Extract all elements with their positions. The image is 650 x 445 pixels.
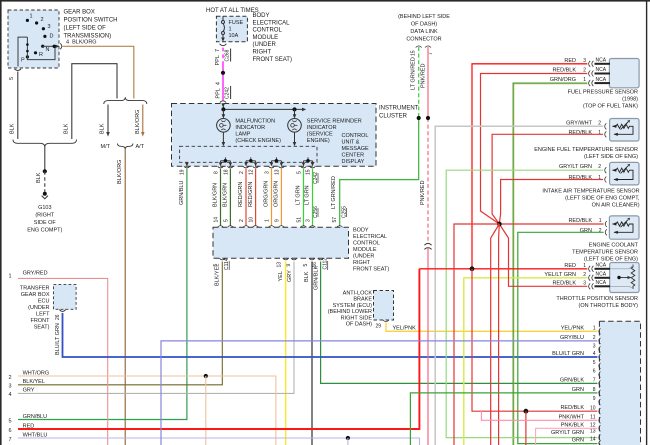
svg-text:RIGHT SIDE: RIGHT SIDE [341, 315, 373, 321]
svg-text:29: 29 [376, 324, 382, 330]
wire BLK/ORG from pin 4 [63, 46, 134, 98]
svg-text:CENTER: CENTER [342, 153, 365, 159]
DLC pin cups [416, 46, 422, 48]
svg-text:2: 2 [593, 335, 596, 341]
NCA stub TPS pin2 [595, 277, 611, 279]
TPS pin cups [589, 266, 594, 290]
svg-text:14: 14 [214, 217, 220, 223]
svg-text:WHT/BLU: WHT/BLU [23, 432, 48, 438]
svg-text:GRN/BLK: GRN/BLK [560, 377, 584, 383]
svg-text:1: 1 [593, 326, 596, 332]
svg-text:RIGHT: RIGHT [253, 50, 272, 56]
svg-text:ELECTRICAL: ELECTRICAL [253, 20, 291, 26]
svg-text:CONTROL: CONTROL [342, 133, 369, 139]
svg-text:BLU/LT GRN: BLU/LT GRN [552, 351, 584, 357]
wire GRY from BECM pin9 [18, 262, 294, 394]
svg-text:BLK/YEL: BLK/YEL [215, 264, 221, 286]
svg-text:2: 2 [239, 171, 245, 174]
ECM box [599, 321, 640, 445]
svg-text:GRN/BLK: GRN/BLK [313, 266, 319, 290]
wire RED/BLK branch below ECM row [525, 411, 527, 445]
svg-text:OF DASH): OF DASH) [346, 322, 372, 328]
svg-text:(BEHIND LEFT SIDE: (BEHIND LEFT SIDE [398, 14, 450, 20]
svg-text:2: 2 [598, 164, 601, 170]
fuse box [216, 16, 247, 42]
svg-text:PPL 7: PPL 7 [215, 49, 221, 66]
svg-text:A/T: A/T [136, 144, 145, 150]
intake air temperature sensor box [610, 162, 639, 185]
label SERVICE REMINDER INDICATOR [307, 119, 362, 145]
svg-text:1: 1 [599, 218, 602, 224]
page border right [646, 0, 647, 445]
wire BLK/ORG long vertical [124, 149, 126, 445]
transfer gear box ECU box [54, 285, 77, 310]
svg-text:BRAKE: BRAKE [353, 297, 372, 303]
lamp malfunction indicator (check engine) [217, 119, 231, 133]
coolant pin cups [605, 221, 607, 235]
svg-text:2: 2 [583, 68, 586, 74]
ground label G103 [27, 205, 62, 234]
wire RED/BLK intake [499, 180, 603, 225]
svg-text:RED/GRN: RED/GRN [238, 182, 244, 207]
svg-text:GEAR BOX: GEAR BOX [64, 10, 95, 16]
svg-text:GRY: GRY [287, 270, 293, 282]
engine fuel temp pin cups [605, 123, 607, 137]
svg-text:GRN/BLU: GRN/BLU [23, 414, 47, 420]
merge brace for BLK wires [13, 140, 77, 148]
wire YEL/PNK from ABS to ECM pin1 [386, 323, 597, 332]
svg-text:CONNECTOR: CONNECTOR [406, 37, 441, 43]
data link connector text [398, 14, 450, 43]
svg-text:15: 15 [411, 50, 417, 56]
svg-text:13: 13 [277, 262, 283, 268]
svg-text:RED: RED [564, 58, 576, 64]
wire PNK/RED solid down [427, 248, 429, 445]
svg-text:15: 15 [306, 169, 312, 175]
svg-text:GRY/WHT: GRY/WHT [566, 120, 593, 126]
svg-text:HOT AT ALL TIMES: HOT AT ALL TIMES [206, 8, 259, 14]
svg-text:FRONT: FRONT [31, 318, 51, 324]
svg-text:BLK: BLK [100, 123, 106, 134]
svg-text:SYSTEM (ECU): SYSTEM (ECU) [333, 303, 373, 309]
svg-text:3: 3 [583, 280, 586, 286]
intake air temp thermistor symbol [613, 166, 634, 180]
svg-text:18: 18 [223, 169, 229, 175]
svg-text:10A: 10A [229, 33, 239, 39]
intake air temp pin cups [605, 167, 607, 182]
svg-text:1: 1 [265, 219, 271, 222]
svg-text:INTAKE AIR TEMPERATURE SENSOR: INTAKE AIR TEMPERATURE SENSOR [542, 189, 639, 195]
intake air temp pin numbers [598, 164, 601, 181]
wire WHT/BLU branch down [347, 438, 349, 445]
svg-text:(LEFT SIDE OF ENG COMPT,: (LEFT SIDE OF ENG COMPT, [565, 196, 640, 202]
BECM top pin cups [218, 226, 343, 228]
svg-text:INSTRUMENT: INSTRUMENT [379, 106, 419, 112]
svg-text:BLK/GRN: BLK/GRN [223, 183, 229, 207]
wire RED/BLK engine fuel temp [492, 134, 603, 224]
svg-text:RED/BLK: RED/BLK [568, 175, 592, 181]
svg-text:(BEHIND LOWER: (BEHIND LOWER [328, 309, 372, 315]
svg-text:GRN: GRN [572, 387, 584, 393]
wire RED/BLK junction left branch [454, 224, 499, 445]
selector upper brace [104, 97, 147, 104]
svg-text:3: 3 [583, 58, 586, 64]
fuel pressure sensor box [609, 59, 639, 88]
svg-text:(TOP OF FUEL TANK): (TOP OF FUEL TANK) [583, 104, 638, 110]
coolant sensor text [572, 243, 639, 263]
svg-text:5: 5 [9, 77, 15, 80]
svg-text:MODULE: MODULE [353, 247, 377, 253]
page border left [0, 0, 2, 445]
svg-text:5: 5 [593, 360, 596, 366]
label INSTRUMENT CLUSTER [379, 106, 419, 120]
svg-text:ECU: ECU [38, 299, 50, 305]
svg-text:ENGINE COOLANT: ENGINE COOLANT [589, 243, 639, 249]
transfer gear box ECU text [20, 286, 50, 331]
cluster pins 3/13 split [272, 157, 282, 164]
selector lower mini brace [118, 144, 133, 150]
wire GRN ECM pin8 [410, 393, 597, 445]
cluster pin numbers row [180, 169, 312, 175]
svg-text:BLK: BLK [304, 271, 310, 282]
intake air temp sensor text [542, 189, 640, 209]
svg-text:CONTROL: CONTROL [253, 28, 283, 34]
svg-text:M/T: M/T [101, 144, 111, 150]
junction dot lamp2 feed [293, 107, 297, 111]
splice dot PPL [221, 71, 225, 75]
wire BLK/ORG A/T leg [142, 105, 144, 134]
svg-text:8: 8 [214, 171, 220, 174]
svg-text:ENGINE FUEL TEMPERATURE SENSOR: ENGINE FUEL TEMPERATURE SENSOR [534, 147, 638, 153]
svg-text:PNK/RED: PNK/RED [420, 181, 426, 205]
svg-text:G103: G103 [38, 205, 51, 211]
svg-text:YEL/PNK: YEL/PNK [561, 325, 585, 331]
svg-text:ENGINE): ENGINE) [307, 138, 330, 144]
ABS pin 29 cup [383, 320, 389, 322]
svg-text:(UNDER: (UNDER [28, 305, 49, 311]
svg-text:SERVICE REMINDER: SERVICE REMINDER [307, 119, 362, 125]
junction dot RED/BLK main [497, 222, 502, 227]
svg-text:RED/BLK: RED/BLK [568, 218, 592, 224]
wire lamp1 to control unit [222, 132, 224, 144]
wire LT GRN/RED from BECM 57 up and right [340, 118, 419, 226]
svg-text:3: 3 [306, 219, 312, 222]
svg-text:1: 1 [9, 274, 12, 280]
transfer box pin cup [59, 310, 65, 312]
svg-text:CONTROL: CONTROL [353, 241, 380, 247]
engine fuel temp pin numbers [598, 120, 601, 136]
wire BLK from pin 5 down [17, 72, 19, 140]
svg-text:WHT/ORG: WHT/ORG [23, 370, 50, 376]
svg-text:NCA: NCA [596, 77, 607, 83]
label MALFUNCTION INDICATOR LAMP [235, 119, 281, 145]
engine fuel temperature sensor box [610, 119, 639, 142]
svg-text:RED/BLK: RED/BLK [568, 130, 592, 136]
wire RED down to ECM pin10 [472, 269, 597, 411]
svg-text:GRY: GRY [23, 388, 35, 394]
svg-text:2: 2 [583, 272, 586, 278]
svg-text:10: 10 [590, 405, 596, 411]
wire PNK/RED solid from DLC [427, 47, 429, 118]
svg-text:THROTTLE POSITION SENSOR: THROTTLE POSITION SENSOR [556, 296, 638, 302]
svg-text:13: 13 [274, 169, 280, 175]
svg-text:FRONT SEAT): FRONT SEAT) [353, 267, 389, 273]
svg-text:2: 2 [9, 375, 12, 381]
wire GRY/RED [18, 278, 108, 445]
svg-text:BODY: BODY [253, 13, 270, 19]
gear box switch text label [64, 10, 118, 40]
svg-text:ELECTRICAL: ELECTRICAL [353, 234, 387, 240]
svg-text:(1998): (1998) [622, 97, 638, 103]
NCA stub TPS pin1 [595, 268, 611, 270]
instrument cluster box [172, 104, 377, 167]
svg-text:PPL 4: PPL 4 [216, 82, 222, 99]
ECM pin numbers [590, 326, 596, 443]
svg-text:OF DASH): OF DASH) [411, 22, 437, 28]
wire YEL/LT GRN TPS pin2 [464, 278, 588, 445]
control unit message center display inner box [180, 146, 317, 162]
wire LT GRN/RED dashed from DLC [418, 47, 420, 118]
fuel pressure pin cups [589, 61, 594, 86]
PNK/RED break symbol [424, 243, 431, 249]
svg-text:9: 9 [286, 264, 292, 267]
svg-text:8: 8 [593, 387, 596, 393]
svg-text:7: 7 [9, 437, 12, 443]
svg-text:FUSE: FUSE [229, 20, 244, 26]
svg-text:LEFT: LEFT [36, 312, 50, 318]
wire GRN/ORG fuel pressure pin1 [513, 83, 587, 445]
svg-text:SEAT): SEAT) [34, 325, 50, 331]
svg-text:(UNDER: (UNDER [353, 254, 374, 260]
svg-text:4 BLK/ORG: 4 BLK/ORG [66, 39, 97, 45]
wire GRY/LT GRN intake [446, 170, 603, 437]
svg-text:NCA: NCA [596, 58, 607, 64]
svg-text:C268: C268 [225, 49, 231, 61]
wire RED/BLK junction down branch b [498, 224, 501, 445]
fuse label FUSE 1 10A [229, 20, 244, 39]
coolant pin numbers [599, 218, 602, 234]
gear box switch contacts 1,2,3,D,N,R,P [21, 14, 54, 64]
NCA stub TPS pin3 [595, 285, 611, 287]
svg-text:3: 3 [265, 171, 271, 174]
svg-text:1: 1 [229, 27, 232, 33]
svg-text:12: 12 [249, 169, 255, 175]
wire BLK inverted U to selector [72, 64, 117, 139]
svg-text:MODULE: MODULE [253, 35, 279, 41]
throttle position sensor box [610, 263, 639, 293]
svg-text:2: 2 [598, 120, 601, 126]
svg-text:5: 5 [303, 264, 309, 267]
gear box position switch box [8, 10, 59, 68]
wire LT GRN b [312, 169, 314, 226]
svg-text:10: 10 [249, 217, 255, 223]
svg-text:(LEFT SIDE OF: (LEFT SIDE OF [64, 26, 107, 32]
svg-text:1: 1 [583, 263, 586, 269]
wire BLK/YEL from BECM pin5 [18, 262, 222, 385]
wire GRY/WHT [435, 126, 603, 445]
BECM lower text label [353, 228, 389, 273]
svg-text:GRY/LT GRN: GRY/LT GRN [559, 164, 592, 170]
junction dot RED/BLK ECM row [524, 409, 529, 414]
NCA stub pin1 [595, 82, 611, 84]
svg-text:FUEL PRESSURE SENSOR: FUEL PRESSURE SENSOR [568, 90, 638, 96]
wire ORG/GRN a [271, 169, 273, 226]
svg-text:RIGHT: RIGHT [353, 260, 371, 266]
svg-text:1: 1 [598, 130, 601, 136]
wire LT GRN a [303, 169, 305, 226]
wire WHT/ORG [18, 376, 276, 445]
svg-text:GRN/ORG: GRN/ORG [550, 77, 576, 83]
label CONTROL UNIT MESSAGE CENTER DISPLAY [342, 133, 370, 165]
svg-text:LT GRN: LT GRN [296, 185, 302, 205]
svg-text:9: 9 [274, 219, 280, 222]
wire into lamp 1 with arrow [222, 109, 224, 116]
wire PNK/BLK ECM pin12 [536, 428, 598, 445]
svg-text:BLK/YEL: BLK/YEL [23, 379, 45, 385]
lamp service reminder indicator [288, 119, 302, 133]
cluster pins 5/15 split [304, 157, 313, 164]
wire BLK to ground G103 [44, 147, 46, 171]
svg-text:PNK/WHT: PNK/WHT [559, 414, 585, 420]
ground symbol G103 [43, 192, 47, 196]
svg-text:DISPLAY: DISPLAY [342, 159, 365, 165]
BECM bottom pin numbers and connector labels [213, 258, 329, 270]
svg-text:GRN: GRN [580, 228, 592, 234]
svg-text:PNK/BLK: PNK/BLK [561, 422, 585, 428]
svg-text:NCA: NCA [596, 272, 607, 278]
wire PPL feed inside cluster [222, 107, 224, 110]
svg-text:6: 6 [593, 369, 596, 375]
pin 4 exit dot and arrow [53, 45, 56, 48]
svg-text:2: 2 [239, 219, 245, 222]
svg-text:7: 7 [593, 378, 596, 384]
engine fuel temp thermistor symbol [613, 122, 634, 134]
ABS ECU box [374, 291, 394, 321]
wire WHT/ORG branch down [205, 376, 207, 445]
svg-text:PNK/RED: PNK/RED [421, 64, 427, 88]
svg-text:(RIGHT: (RIGHT [35, 213, 55, 219]
svg-text:CLUSTER: CLUSTER [379, 114, 408, 120]
fuel pressure sensor text [568, 90, 639, 110]
svg-text:C242: C242 [225, 87, 231, 99]
svg-text:YEL: YEL [278, 271, 284, 281]
svg-text:INDICATOR: INDICATOR [307, 125, 337, 131]
engine fuel temp sensor text [534, 147, 638, 160]
svg-text:SIDE OF: SIDE OF [34, 220, 57, 226]
svg-text:R: R [39, 52, 43, 58]
svg-text:NCA: NCA [596, 263, 607, 269]
wire RED/BLK junction down branch a [491, 224, 500, 445]
svg-text:(UNDER: (UNDER [253, 42, 277, 48]
svg-text:3: 3 [593, 344, 596, 350]
junction dot RED row [470, 266, 475, 271]
svg-text:BLK: BLK [36, 172, 42, 183]
svg-text:5: 5 [223, 219, 229, 222]
wire RED/BLK coolant to junction [499, 223, 603, 225]
svg-text:BLK/GRN: BLK/GRN [213, 183, 219, 207]
BECM bottom pin cups [219, 258, 323, 260]
svg-text:INDICATOR: INDICATOR [235, 125, 265, 131]
svg-text:UNIT &: UNIT & [342, 140, 360, 146]
BECM top pin numbers [214, 217, 339, 223]
svg-text:ON AIR CLEANER): ON AIR CLEANER) [592, 203, 640, 209]
TPS pin numbers [583, 263, 586, 287]
ABS text label [328, 291, 373, 328]
svg-text:GRN/BLU: GRN/BLU [179, 181, 185, 205]
svg-text:14: 14 [590, 437, 596, 443]
wire WHT/BLU row 7 [18, 438, 420, 445]
svg-text:1: 1 [583, 77, 586, 83]
wire YEL from BECM pin13 [285, 262, 287, 445]
svg-text:P: P [21, 58, 25, 64]
svg-text:MALFUNCTION: MALFUNCTION [235, 119, 275, 125]
BECM box [213, 227, 349, 258]
wire PNK/RED dashed below splice [427, 118, 429, 243]
BECM bottom wire labels rotated [215, 264, 320, 290]
wire BLK/GRN b [229, 169, 231, 226]
wire PPL solid to cluster [222, 64, 224, 100]
svg-text:5: 5 [9, 418, 12, 424]
wire RED/GRN a [245, 169, 247, 226]
svg-text:MESSAGE: MESSAGE [342, 146, 370, 152]
NCA stub pin2 [595, 73, 611, 75]
coolant thermistor symbol [613, 220, 634, 233]
wire PNK/WHT ECM pin11 [481, 410, 597, 420]
wire lamp2 to control unit [294, 132, 296, 144]
wire RED/BLK TPS pin3 [499, 224, 587, 286]
wire into lamp 2 with arrow [294, 109, 296, 116]
svg-text:TRANSFER: TRANSFER [20, 286, 50, 292]
wire GRN coolant to ECM pin14 [518, 232, 604, 443]
svg-text:GEAR BOX: GEAR BOX [21, 292, 50, 298]
engine coolant temperature sensor box [609, 216, 639, 239]
svg-text:FRONT SEAT): FRONT SEAT) [253, 57, 292, 63]
fuel pressure pin numbers [583, 58, 586, 83]
svg-text:BLK: BLK [10, 123, 16, 134]
svg-text:26: 26 [55, 314, 61, 320]
cluster bottom pin cups [184, 166, 316, 168]
svg-text:POSITION SWITCH: POSITION SWITCH [64, 18, 118, 24]
svg-text:13: 13 [590, 428, 596, 434]
svg-text:ORG/GRN: ORG/GRN [264, 181, 270, 207]
svg-text:1: 1 [30, 14, 33, 20]
svg-text:9: 9 [593, 396, 596, 402]
fuse exit arrow [221, 38, 225, 42]
svg-text:TEMPERATURE SENSOR: TEMPERATURE SENSOR [572, 250, 638, 256]
dashed BLK wire to ground [44, 171, 46, 192]
BECM upper text label [253, 13, 292, 63]
svg-text:YEL/LT GRN: YEL/LT GRN [544, 272, 576, 278]
svg-text:(LEFT SIDE OF ENG): (LEFT SIDE OF ENG) [584, 154, 638, 160]
svg-text:7: 7 [428, 52, 434, 55]
svg-text:GRY/LT GRN: GRY/LT GRN [551, 430, 584, 436]
svg-text:(LEFT SIDE OF ENG): (LEFT SIDE OF ENG) [584, 257, 638, 263]
svg-text:4: 4 [9, 392, 12, 398]
svg-text:N: N [46, 47, 50, 53]
gear box switch pole wiring [18, 37, 59, 66]
svg-text:DATA LINK: DATA LINK [410, 29, 438, 35]
svg-text:RED/BLK: RED/BLK [552, 68, 576, 74]
svg-text:RED: RED [564, 263, 576, 269]
wire RED/GRN b [255, 169, 257, 226]
svg-text:LAMP: LAMP [235, 132, 250, 138]
svg-text:BLK/ORG: BLK/ORG [135, 110, 141, 134]
svg-text:4: 4 [593, 351, 596, 357]
pin 4 cup [60, 43, 62, 49]
svg-text:(SERVICE: (SERVICE [307, 132, 333, 138]
svg-text:NCA: NCA [596, 280, 607, 286]
cluster pin 19 exit arrow [186, 162, 188, 164]
